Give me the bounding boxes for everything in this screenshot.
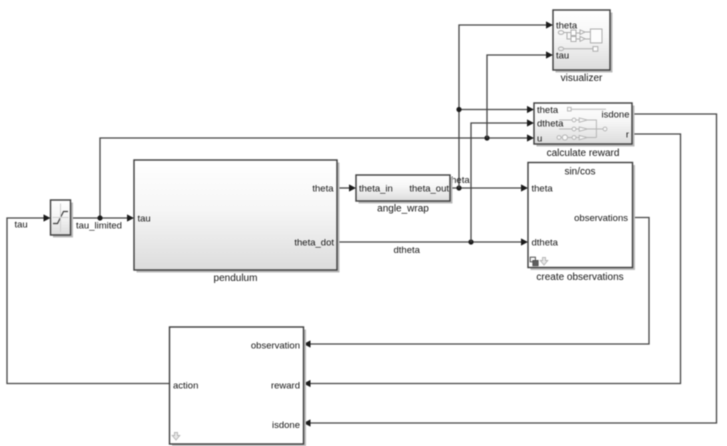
svg-text:pendulum: pendulum	[214, 273, 258, 284]
svg-text:reward: reward	[271, 381, 300, 392]
svg-text:sin/cos: sin/cos	[564, 167, 595, 178]
svg-text:visualizer: visualizer	[561, 73, 603, 84]
svg-text:theta_in: theta_in	[359, 184, 393, 195]
svg-text:u: u	[537, 134, 542, 145]
svg-text:theta: theta	[312, 184, 334, 195]
svg-text:tau: tau	[556, 51, 569, 62]
svg-text:isdone: isdone	[602, 110, 630, 121]
svg-text:isdone: isdone	[272, 420, 300, 431]
svg-text:tau_limited: tau_limited	[76, 221, 122, 232]
svg-text:angle_wrap: angle_wrap	[377, 204, 429, 215]
svg-text:observations: observations	[574, 213, 628, 224]
svg-text:dtheta: dtheta	[394, 245, 421, 256]
svg-text:action: action	[173, 381, 198, 392]
svg-text:theta: theta	[532, 184, 554, 195]
svg-text:dtheta: dtheta	[532, 238, 559, 249]
svg-text:r: r	[626, 130, 629, 141]
svg-text:tau: tau	[15, 220, 28, 231]
svg-text:theta_out: theta_out	[409, 184, 449, 195]
svg-text:observation: observation	[251, 341, 300, 352]
svg-text:theta: theta	[537, 105, 559, 116]
svg-text:create observations: create observations	[536, 272, 623, 283]
svg-text:theta_dot: theta_dot	[294, 238, 334, 249]
svg-text:tau: tau	[138, 214, 151, 225]
svg-text:dtheta: dtheta	[537, 119, 564, 130]
svg-text:calculate reward: calculate reward	[547, 148, 620, 159]
